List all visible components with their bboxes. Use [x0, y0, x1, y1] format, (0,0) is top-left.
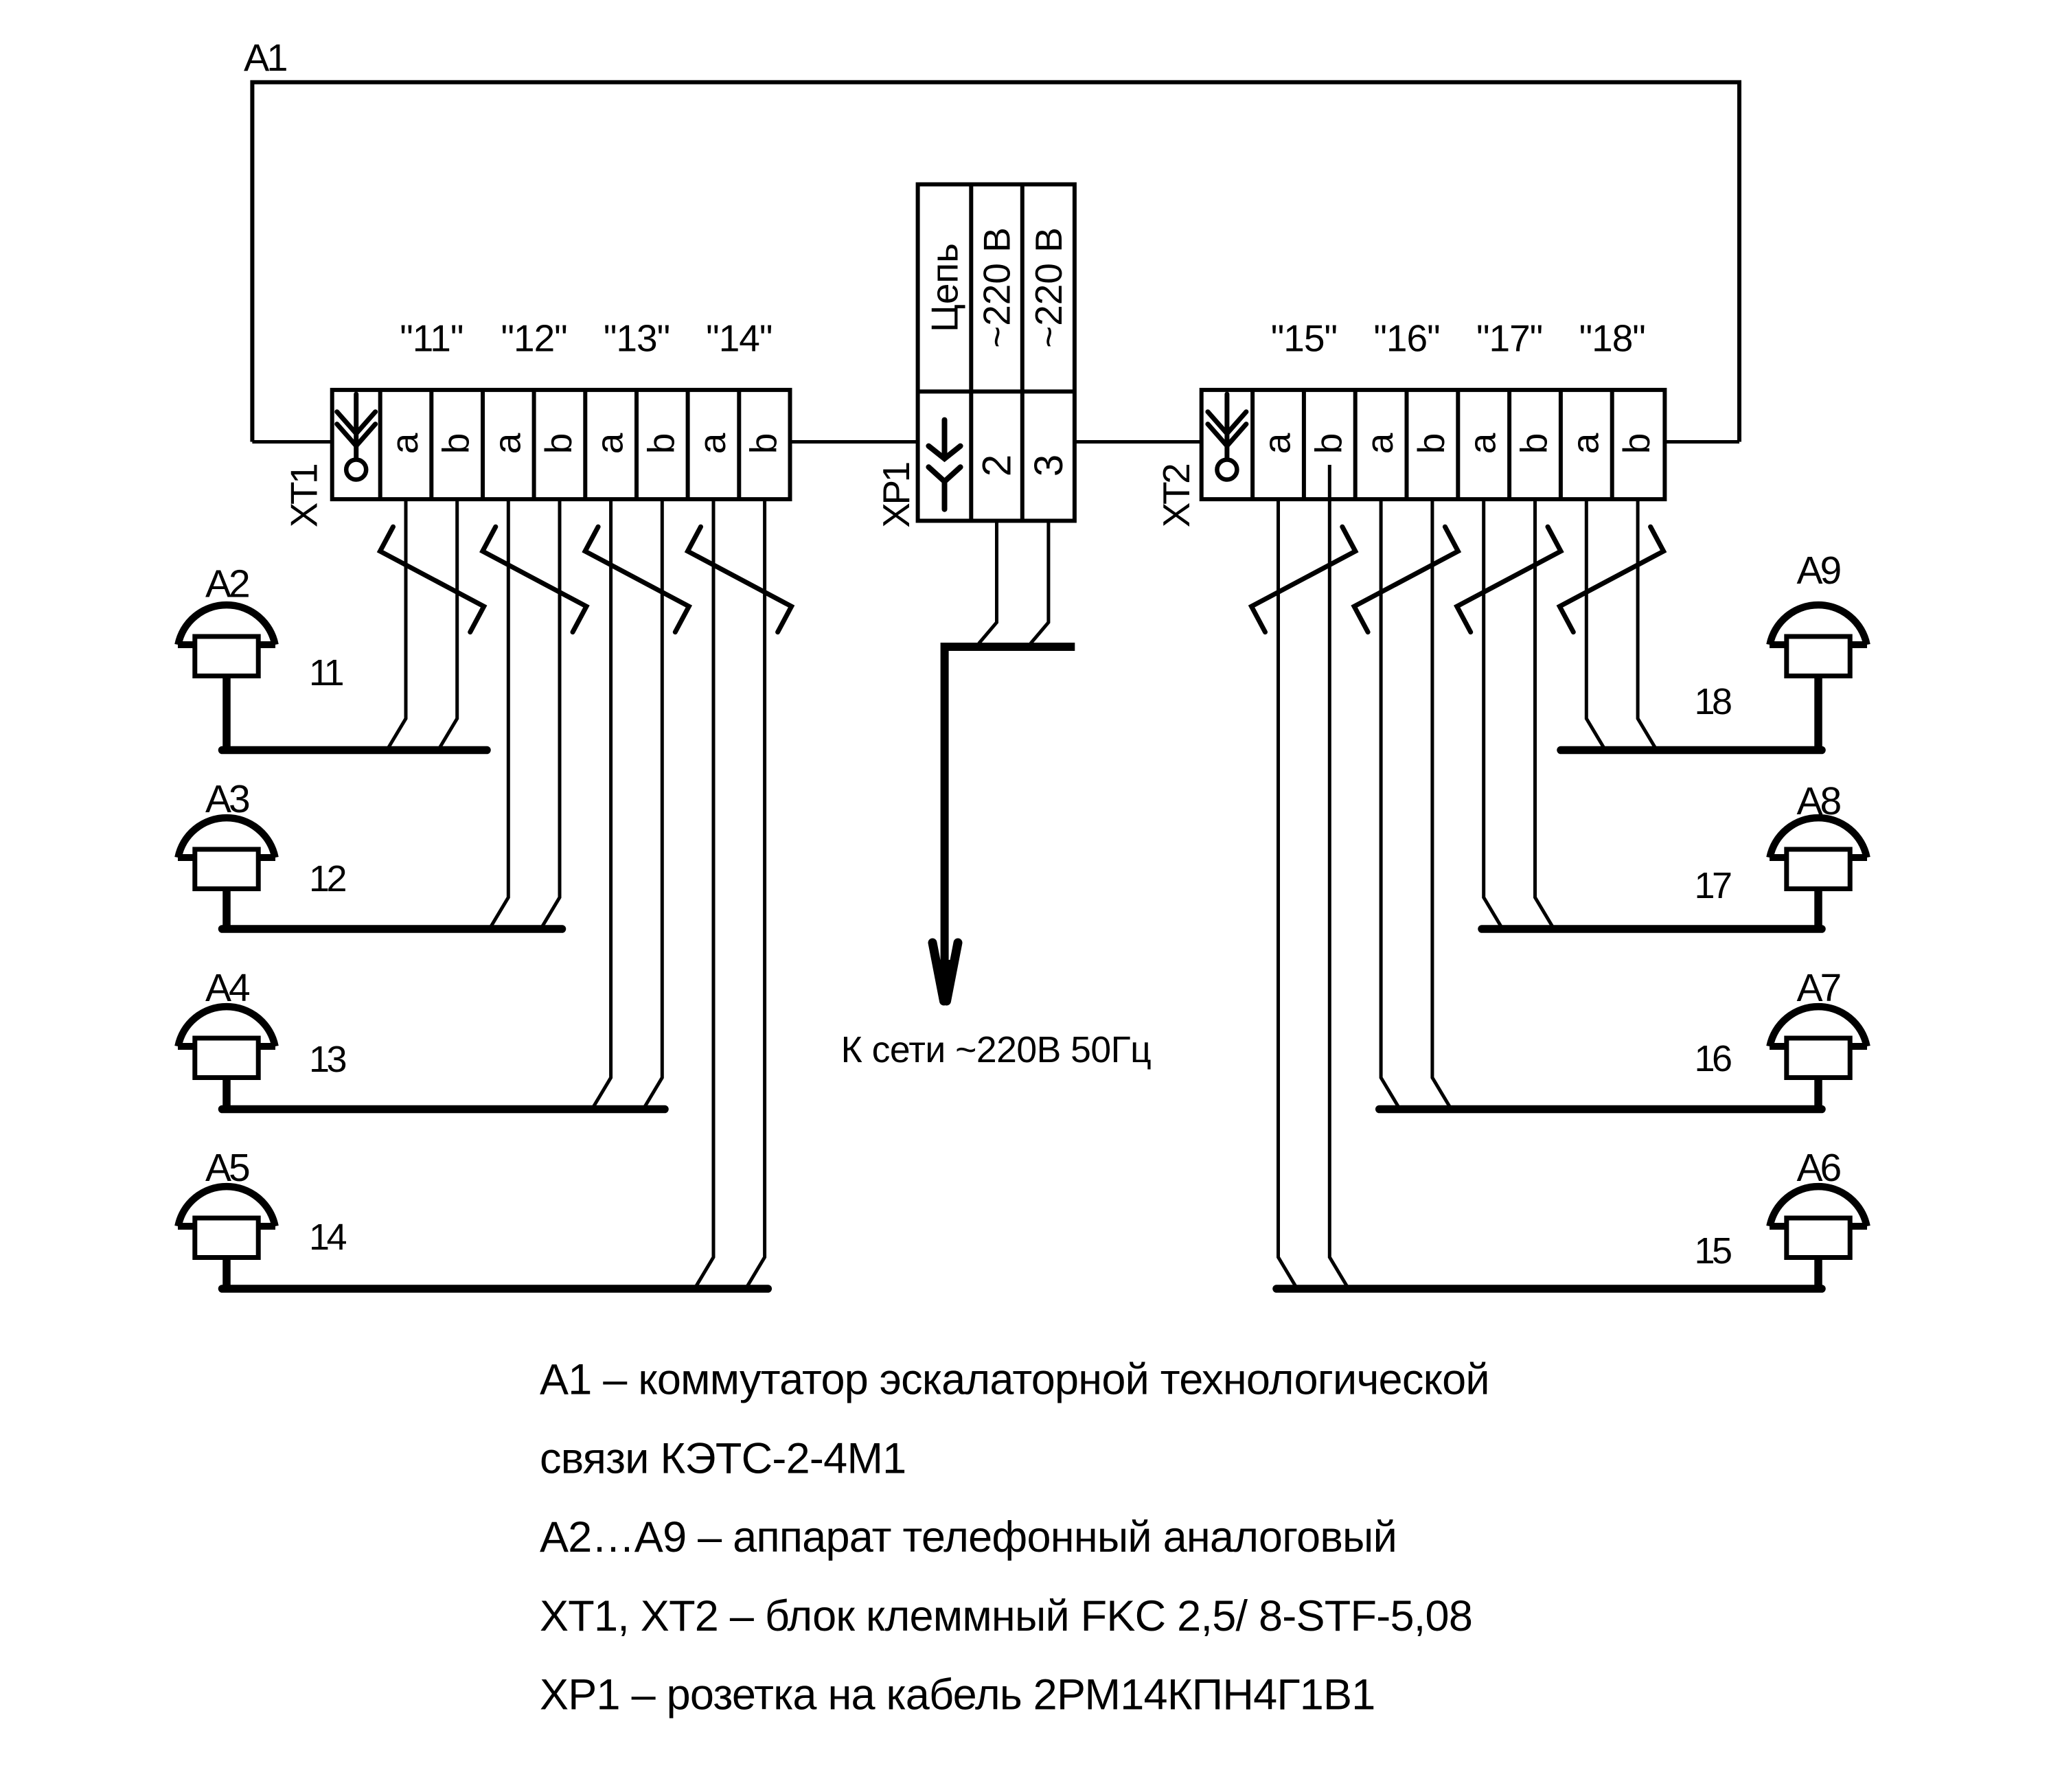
svg-text:13: 13 [309, 1039, 346, 1080]
twisted-pair crossover mark 17 [1457, 527, 1561, 632]
line to phone A3 [222, 925, 562, 933]
wire XT1 pair 13 b [643, 499, 663, 1109]
svg-text:~220 В: ~220 В [976, 227, 1018, 348]
wire XT1 to XP1 [788, 440, 919, 444]
wire XT1 pair 12 b [541, 499, 560, 929]
svg-text:3: 3 [1027, 455, 1071, 476]
telephone A5 [178, 1186, 275, 1289]
svg-text:А4: А4 [205, 966, 250, 1010]
XP1 plug-socket symbol [928, 420, 960, 509]
wire XT1 pair 11 b [438, 499, 457, 750]
svg-text:17: 17 [1695, 865, 1732, 906]
svg-text:"17": "17" [1476, 317, 1542, 360]
connector XP1 outline [918, 185, 1075, 521]
svg-text:ХТ1: ХТ1 [283, 465, 325, 527]
svg-text:А3: А3 [205, 777, 249, 821]
svg-text:А2…А9 – аппарат телефонный ана: А2…А9 – аппарат телефонный аналоговый [540, 1513, 1397, 1561]
wire XT2 pair 16 a [1381, 499, 1400, 1109]
svg-text:ХТ1, ХТ2 – блок клеммный FKC 2: ХТ1, ХТ2 – блок клеммный FKC 2,5/ 8-STF-… [540, 1592, 1472, 1640]
wire XT2 pair 17 a [1484, 499, 1503, 929]
ХТ1 cell1 socket-pin symbol [337, 394, 376, 457]
ХТ2 cell1 socket-pin symbol [1208, 394, 1246, 457]
svg-text:a: a [1256, 433, 1298, 454]
terminal block ХТ1 [332, 390, 790, 499]
telephone A3 [178, 818, 275, 929]
svg-text:А7: А7 [1797, 966, 1840, 1010]
twisted-pair crossover mark 15 [1252, 527, 1355, 632]
telephone A4 [178, 1007, 275, 1109]
A1 commutator box outline [252, 82, 1739, 442]
wire XT2 pair 18 a [1586, 499, 1605, 750]
svg-text:"16": "16" [1373, 317, 1439, 360]
svg-text:ХТ2: ХТ2 [1155, 465, 1198, 527]
svg-text:А1: А1 [244, 36, 286, 79]
svg-text:Цепь: Цепь [924, 243, 966, 332]
svg-text:А5: А5 [205, 1146, 249, 1190]
svg-text:a: a [383, 433, 426, 454]
wire XT2 pair 15 b [1329, 465, 1349, 1289]
line to phone A4 [222, 1105, 665, 1114]
svg-text:a: a [588, 433, 631, 454]
svg-text:b: b [1307, 433, 1349, 455]
twisted-pair crossover mark 16 [1354, 527, 1458, 632]
wire XT2 pair 15 a [1279, 499, 1298, 1289]
svg-text:А1 – коммутатор эскалаторной т: А1 – коммутатор эскалаторной технологиче… [540, 1356, 1489, 1404]
line to phone A5 [222, 1285, 768, 1293]
svg-text:~220 В: ~220 В [1027, 227, 1070, 348]
svg-text:"18": "18" [1579, 317, 1645, 360]
wire XP1 pin3 down [1031, 521, 1049, 644]
svg-text:А6: А6 [1797, 1146, 1841, 1190]
svg-text:К сети ~220В 50Гц: К сети ~220В 50Гц [841, 1030, 1152, 1070]
svg-text:"13": "13" [604, 317, 669, 360]
svg-text:18: 18 [1695, 681, 1732, 722]
svg-text:А8: А8 [1797, 779, 1841, 823]
line to phone A2 [222, 746, 488, 755]
twisted-pair crossover mark 18 [1559, 527, 1663, 632]
svg-text:А9: А9 [1797, 549, 1840, 593]
wire XP1 to XT2 [1073, 440, 1203, 444]
wire XT2 to A1-right [1663, 440, 1739, 444]
svg-text:А2: А2 [205, 562, 249, 606]
svg-text:2: 2 [975, 455, 1020, 476]
wire XT1 pair 14 b [746, 499, 765, 1289]
line to phone A6 [1277, 1285, 1822, 1293]
wire XT1 pair 11 a [387, 499, 407, 750]
svg-text:a: a [1564, 433, 1606, 454]
telephone A6 [1770, 1186, 1867, 1289]
svg-text:b: b [537, 433, 580, 455]
svg-text:b: b [1513, 433, 1555, 455]
svg-text:a: a [1461, 433, 1504, 454]
twisted-pair crossover mark 14 [688, 527, 792, 632]
telephone A8 [1770, 818, 1867, 929]
wire XT2 pair 16 b [1432, 499, 1452, 1109]
telephone A7 [1770, 1007, 1867, 1109]
power bus to mains arrow [945, 647, 1075, 962]
svg-text:b: b [639, 433, 682, 455]
telephone A2 [178, 605, 275, 750]
svg-text:"14": "14" [706, 317, 772, 360]
wire XT1 pair 14 a [695, 499, 714, 1289]
twisted-pair crossover mark 13 [585, 527, 689, 632]
svg-text:b: b [435, 433, 477, 455]
svg-text:14: 14 [309, 1217, 347, 1258]
wire XP1 pin2 down [978, 521, 996, 644]
wire XT1 pair 13 a [592, 499, 611, 1109]
wire XT1 pair 12 a [490, 499, 509, 929]
svg-text:b: b [1410, 433, 1452, 455]
svg-text:b: b [1615, 433, 1658, 455]
line to phone A7 [1380, 1105, 1822, 1114]
svg-text:b: b [742, 433, 785, 455]
svg-text:связи КЭТС-2-4М1: связи КЭТС-2-4М1 [540, 1434, 906, 1482]
line to phone A9 [1561, 746, 1822, 755]
svg-text:12: 12 [309, 858, 346, 899]
twisted-pair crossover mark 12 [483, 527, 586, 632]
svg-text:ХР1 – розетка на кабель 2РМ14К: ХР1 – розетка на кабель 2РМ14КПН4Г1В1 [540, 1671, 1375, 1719]
svg-text:16: 16 [1695, 1038, 1732, 1079]
svg-text:15: 15 [1695, 1230, 1732, 1272]
twisted-pair crossover mark 11 [380, 527, 484, 632]
svg-text:11: 11 [309, 652, 343, 693]
terminal block ХТ2 [1202, 390, 1665, 499]
svg-text:"11": "11" [400, 317, 463, 360]
wire XT2 pair 17 b [1535, 499, 1555, 929]
svg-text:"15": "15" [1271, 317, 1337, 360]
svg-text:a: a [1358, 433, 1401, 454]
svg-text:"12": "12" [501, 317, 566, 360]
mains arrow head [932, 943, 958, 1001]
telephone A9 [1770, 605, 1867, 750]
svg-text:ХР1: ХР1 [875, 463, 917, 527]
svg-text:a: a [691, 433, 733, 454]
line to phone A8 [1482, 925, 1822, 933]
svg-text:a: a [485, 433, 528, 454]
wire XT2 pair 18 b [1638, 499, 1657, 750]
wire A1-left to XT1 [252, 440, 334, 444]
